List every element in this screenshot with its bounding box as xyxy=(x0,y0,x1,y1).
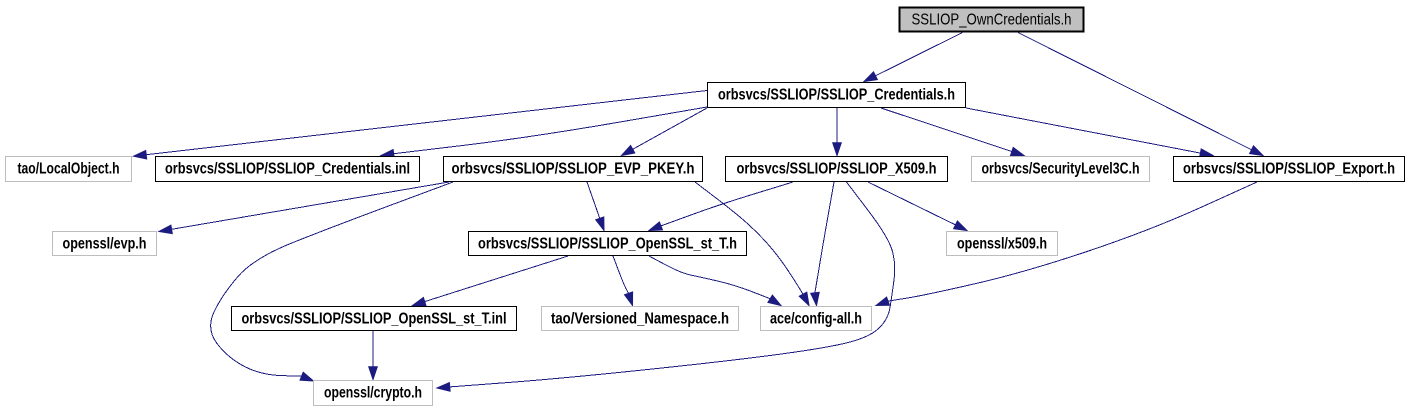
edge SSLIOP_OwnCredentials.h -> SSLIOP_Credentials.h xyxy=(864,33,963,82)
svg-text:orbsvcs/SSLIOP/SSLIOP_Export.h: orbsvcs/SSLIOP/SSLIOP_Export.h xyxy=(1183,161,1395,178)
svg-text:openssl/evp.h: openssl/evp.h xyxy=(63,236,147,253)
svg-text:tao/LocalObject.h: tao/LocalObject.h xyxy=(18,161,120,178)
edge SSLIOP_Credentials.h -> tao/LocalObject.h xyxy=(134,91,708,160)
edge SSLIOP_X509.h -> SSLIOP_OpenSSL_st_T.h xyxy=(649,182,793,231)
node tao/Versioned_Namespace.h xyxy=(542,307,739,331)
node openssl/evp.h xyxy=(53,232,157,256)
node orbsvcs/SSLIOP/SSLIOP_X509.h xyxy=(726,157,948,182)
svg-text:orbsvcs/SSLIOP/SSLIOP_OpenSSL_: orbsvcs/SSLIOP/SSLIOP_OpenSSL_st_T.h xyxy=(478,236,737,253)
node orbsvcs/SSLIOP/SSLIOP_Export.h xyxy=(1174,157,1405,182)
svg-text:orbsvcs/SSLIOP/SSLIOP_Credenti: orbsvcs/SSLIOP/SSLIOP_Credentials.h xyxy=(718,87,955,104)
edge SSLIOP_Credentials.h -> SSLIOP_X509.h xyxy=(833,108,842,156)
svg-text:openssl/crypto.h: openssl/crypto.h xyxy=(324,385,422,402)
svg-text:openssl/x509.h: openssl/x509.h xyxy=(957,236,1047,253)
edge SSLIOP_OpenSSL_st_T.h -> tao/Versioned_Namespace.h xyxy=(613,256,633,306)
edge SSLIOP_OpenSSL_st_T.h -> ace/config-all.h xyxy=(649,256,781,306)
svg-text:orbsvcs/SSLIOP/SSLIOP_EVP_PKEY: orbsvcs/SSLIOP/SSLIOP_EVP_PKEY.h xyxy=(452,161,695,178)
node SSLIOP_OwnCredentials.h xyxy=(900,8,1084,32)
svg-text:ace/config-all.h: ace/config-all.h xyxy=(770,311,862,328)
edge SSLIOP_OwnCredentials.h -> SSLIOP_Export.h xyxy=(1018,33,1263,156)
edge SSLIOP_X509.h -> ace/config-all.h xyxy=(811,182,834,306)
edge SSLIOP_EVP_PKEY.h -> openssl/crypto.h xyxy=(211,182,453,381)
node orbsvcs/SSLIOP/SSLIOP_Credentials.h xyxy=(708,83,966,108)
node openssl/x509.h xyxy=(947,232,1058,256)
edge SSLIOP_EVP_PKEY.h -> ace/config-all.h xyxy=(695,182,809,306)
node ace/config-all.h xyxy=(761,307,872,331)
node orbsvcs/SSLIOP/SSLIOP_Credentials.inl xyxy=(156,157,420,182)
edge SSLIOP_EVP_PKEY.h -> SSLIOP_OpenSSL_st_T.h xyxy=(587,182,604,231)
node orbsvcs/SecurityLevel3C.h xyxy=(972,157,1150,182)
node orbsvcs/SSLIOP/SSLIOP_OpenSSL_st_T.inl xyxy=(232,307,517,331)
edge SSLIOP_Credentials.h -> SSLIOP_Export.h xyxy=(966,108,1213,157)
svg-text:orbsvcs/SSLIOP/SSLIOP_OpenSSL_: orbsvcs/SSLIOP/SSLIOP_OpenSSL_st_T.inl xyxy=(242,311,507,328)
svg-text:SSLIOP_OwnCredentials.h: SSLIOP_OwnCredentials.h xyxy=(912,12,1072,29)
edge SSLIOP_Credentials.h -> SSLIOP_Credentials.inl xyxy=(381,107,707,158)
node orbsvcs/SSLIOP/SSLIOP_EVP_PKEY.h xyxy=(444,157,703,182)
edge SSLIOP_OpenSSL_st_T.h -> SSLIOP_OpenSSL_st_T.inl xyxy=(413,256,569,306)
svg-text:orbsvcs/SSLIOP/SSLIOP_X509.h: orbsvcs/SSLIOP/SSLIOP_X509.h xyxy=(737,161,937,178)
edge SSLIOP_X509.h -> openssl/crypto.h xyxy=(437,182,895,391)
svg-text:tao/Versioned_Namespace.h: tao/Versioned_Namespace.h xyxy=(551,311,729,328)
edge SSLIOP_X509.h -> openssl/x509.h xyxy=(868,182,967,231)
svg-text:orbsvcs/SSLIOP/SSLIOP_Credenti: orbsvcs/SSLIOP/SSLIOP_Credentials.inl xyxy=(165,161,410,178)
edge SSLIOP_Export.h -> ace/config-all.h xyxy=(876,182,1257,306)
edge SSLIOP_OpenSSL_st_T.inl -> openssl/crypto.h xyxy=(369,331,378,380)
edge SSLIOP_Credentials.h -> SecurityLevel3C.h xyxy=(881,108,1024,156)
node tao/LocalObject.h xyxy=(6,157,132,182)
svg-text:orbsvcs/SecurityLevel3C.h: orbsvcs/SecurityLevel3C.h xyxy=(982,161,1140,178)
edge SSLIOP_Credentials.h -> SSLIOP_EVP_PKEY.h xyxy=(622,108,708,156)
edge SSLIOP_EVP_PKEY.h -> openssl/evp.h xyxy=(159,182,449,234)
node openssl/crypto.h xyxy=(314,381,433,406)
node orbsvcs/SSLIOP/SSLIOP_OpenSSL_st_T.h xyxy=(469,232,747,256)
